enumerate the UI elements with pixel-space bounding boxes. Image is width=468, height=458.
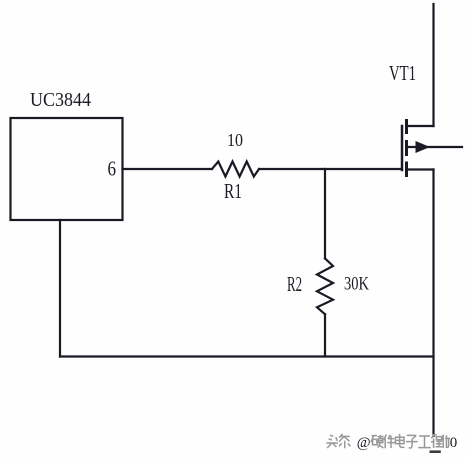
transistor VT1 (N-channel MOSFET: gate bar, channel bars, drain/source stubs, body arrow) <box>402 121 462 176</box>
svg-text:R1: R1 <box>224 179 242 203</box>
wm char 条 <box>339 434 350 448</box>
resistor R2 <box>317 258 333 314</box>
wire source down <box>432 170 434 437</box>
wire drain top <box>432 4 434 126</box>
wire stub below watermark <box>431 450 440 453</box>
wm char 电 <box>395 434 404 448</box>
wm char 师 <box>443 435 450 448</box>
wire R2 top lead <box>324 169 326 258</box>
svg-text:@: @ <box>357 435 371 451</box>
watermark 头条 @硬件电子工程师0 (hand-drawn gray strokes) <box>326 434 450 448</box>
wm char 头 <box>326 435 338 448</box>
wire bottom bus <box>60 355 434 357</box>
resistor R1 <box>212 162 259 177</box>
svg-text:UC3844: UC3844 <box>30 89 91 111</box>
svg-text:10: 10 <box>227 130 243 150</box>
svg-text:30K: 30K <box>344 275 369 295</box>
IC U1 UC3844 box <box>11 118 123 220</box>
wm char 子 <box>406 435 418 448</box>
wm char 件 <box>384 434 395 448</box>
svg-text:VT1: VT1 <box>389 61 416 85</box>
wm char 硬 <box>371 435 384 448</box>
svg-text:6: 6 <box>108 157 117 181</box>
svg-text:R2: R2 <box>287 272 302 296</box>
wm char 工 <box>418 436 431 448</box>
wire R1 to gate <box>259 168 402 170</box>
wire R2 bottom lead <box>324 314 326 356</box>
wire pin6 to R1 <box>123 168 213 170</box>
wm char 程 <box>431 435 442 448</box>
wire UC3844 bottom pin down <box>59 220 61 357</box>
svg-text:0: 0 <box>450 435 458 451</box>
